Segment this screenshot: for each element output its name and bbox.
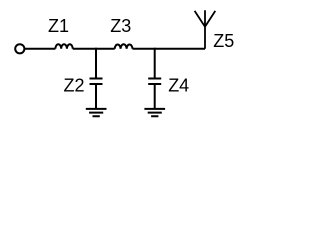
svg-text:Z3: Z3 [110,16,131,36]
svg-text:Z5: Z5 [213,31,234,51]
svg-text:Z1: Z1 [48,16,69,36]
svg-text:Z2: Z2 [63,75,84,95]
svg-text:Z4: Z4 [168,76,189,96]
